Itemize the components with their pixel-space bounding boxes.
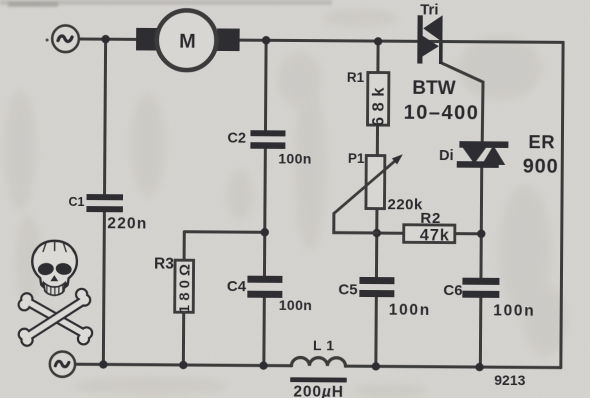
resistor R1 bbox=[368, 73, 389, 127]
label ER 900 bbox=[523, 131, 559, 178]
svg-text:ER: ER bbox=[528, 131, 555, 152]
svg-text:220n: 220n bbox=[107, 215, 147, 232]
motor M1 brushes bbox=[136, 28, 240, 51]
svg-text:100n: 100n bbox=[493, 302, 535, 319]
svg-text:M: M bbox=[179, 31, 196, 53]
wire C2-C4 branch bbox=[264, 40, 266, 365]
node R3-C2 junction bbox=[261, 228, 269, 236]
wire C1 branch bbox=[103, 39, 105, 364]
svg-text:220k: 220k bbox=[387, 196, 423, 213]
node R2-diac junction bbox=[477, 230, 485, 238]
svg-text:100n: 100n bbox=[278, 150, 312, 166]
wire R2 links bbox=[377, 232, 481, 236]
svg-text:200µH: 200µH bbox=[293, 383, 344, 398]
label BTW 10-400 bbox=[404, 78, 480, 125]
capacitor C2 bbox=[250, 130, 285, 149]
capacitor C5 bbox=[359, 277, 394, 297]
svg-text:R2: R2 bbox=[420, 210, 441, 227]
svg-text:R3: R3 bbox=[154, 256, 174, 273]
svg-text:C2: C2 bbox=[227, 131, 246, 147]
skull bbox=[32, 241, 77, 296]
resistor R3 bbox=[175, 260, 194, 313]
svg-text:10–400: 10–400 bbox=[404, 102, 480, 125]
capacitor C1 bbox=[86, 194, 123, 212]
svg-text:47k: 47k bbox=[420, 226, 450, 244]
svg-text:180Ω: 180Ω bbox=[176, 260, 193, 313]
node R1 top junction bbox=[374, 37, 382, 45]
svg-text:100n: 100n bbox=[279, 297, 313, 313]
svg-text:P1: P1 bbox=[348, 151, 365, 166]
svg-text:C1: C1 bbox=[68, 195, 84, 209]
diac Di bbox=[457, 141, 509, 168]
wire R3 branch bbox=[183, 232, 264, 366]
node motor-right junction bbox=[262, 36, 270, 44]
AC source top bbox=[46, 25, 79, 52]
svg-text:Di: Di bbox=[439, 148, 454, 164]
node bottom C4 junction bbox=[259, 361, 267, 369]
wire triac gate bbox=[442, 63, 484, 141]
wire top rail bbox=[80, 39, 563, 42]
capacitor C4 bbox=[247, 276, 282, 298]
svg-text:100n: 100n bbox=[389, 302, 431, 319]
node top-left junction bbox=[101, 35, 109, 43]
wire R1-P1-C5 branch bbox=[376, 41, 378, 366]
capacitor C6 bbox=[462, 278, 499, 298]
svg-text:BTW: BTW bbox=[412, 78, 455, 99]
node bottom C1 junction bbox=[99, 360, 107, 368]
wire right rail bbox=[561, 42, 563, 367]
svg-text:68k: 68k bbox=[370, 82, 388, 126]
potentiometer P1 bbox=[334, 154, 403, 214]
svg-text:9213: 9213 bbox=[494, 372, 525, 388]
svg-text:900: 900 bbox=[523, 156, 559, 178]
wire P1 wiper bbox=[334, 213, 377, 232]
resistor R2 bbox=[404, 225, 455, 245]
motor M1 body bbox=[157, 10, 217, 70]
inductor L1 bbox=[290, 357, 347, 382]
svg-text:C4: C4 bbox=[227, 278, 247, 295]
node bottom R3 junction bbox=[179, 361, 187, 369]
wire bottom rail bbox=[74, 364, 561, 367]
AC source bottom bbox=[50, 351, 75, 376]
svg-text:Tri: Tri bbox=[420, 1, 438, 18]
triac Tri bbox=[417, 15, 443, 64]
svg-text:L 1: L 1 bbox=[313, 337, 335, 353]
node bottom C6 junction bbox=[475, 363, 483, 371]
svg-text:C5: C5 bbox=[338, 281, 357, 298]
node P1 wiper junction bbox=[373, 229, 381, 237]
svg-text:R1: R1 bbox=[347, 70, 365, 85]
crossbones bbox=[19, 289, 91, 345]
node bottom C5 junction bbox=[372, 362, 380, 370]
wire diac-C6 branch bbox=[480, 168, 481, 367]
svg-text:C6: C6 bbox=[443, 282, 462, 299]
